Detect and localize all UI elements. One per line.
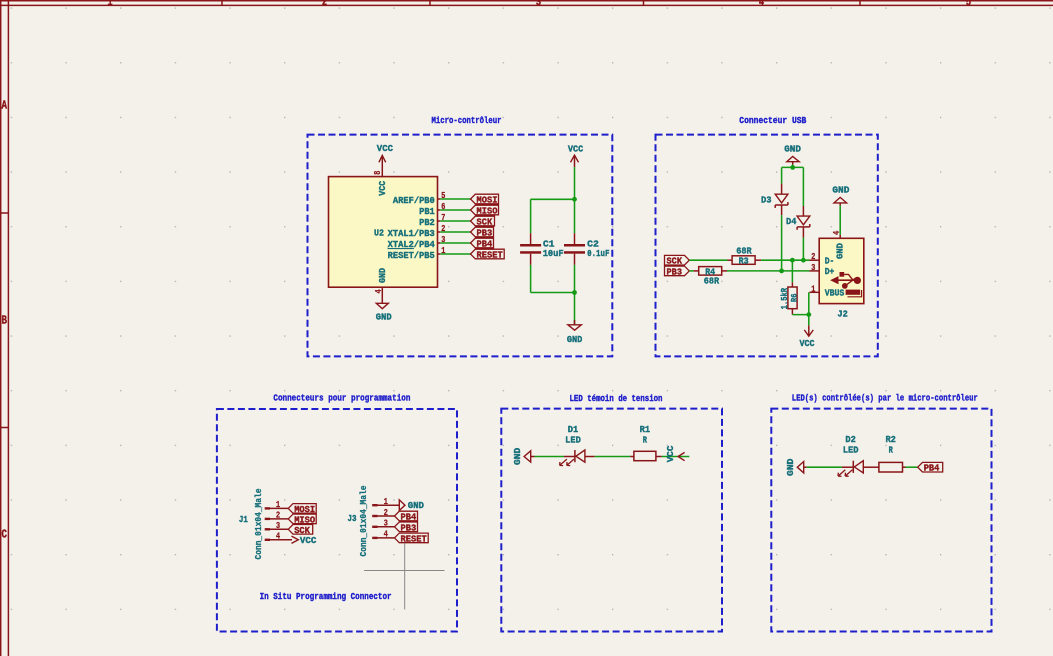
svg-text:Conn_01x04_Male: Conn_01x04_Male <box>254 489 264 560</box>
svg-text:GND: GND <box>377 268 388 283</box>
svg-text:3: 3 <box>276 521 280 531</box>
svg-text:VCC: VCC <box>568 143 584 154</box>
svg-text:LED: LED <box>565 434 581 445</box>
svg-text:RESET/PB5: RESET/PB5 <box>388 250 436 261</box>
svg-text:D+: D+ <box>825 266 835 277</box>
svg-text:PB4: PB4 <box>924 463 940 474</box>
svg-text:Connecteurs pour programmation: Connecteurs pour programmation <box>273 392 410 403</box>
svg-text:MOSI: MOSI <box>294 504 315 515</box>
svg-text:R6: R6 <box>790 294 800 303</box>
svg-text:GND: GND <box>784 143 801 154</box>
svg-text:1: 1 <box>441 246 446 256</box>
svg-text:2: 2 <box>276 511 280 521</box>
svg-text:1: 1 <box>107 0 113 9</box>
svg-text:GND: GND <box>512 447 523 465</box>
svg-text:D3: D3 <box>761 194 772 205</box>
svg-text:6: 6 <box>441 202 445 212</box>
svg-text:2: 2 <box>441 224 445 234</box>
svg-text:GND: GND <box>785 458 796 476</box>
svg-text:GND: GND <box>408 500 425 511</box>
svg-text:1.5kR: 1.5kR <box>779 288 790 310</box>
svg-text:R1: R1 <box>640 424 651 435</box>
svg-text:10uF: 10uF <box>543 248 564 259</box>
svg-text:A: A <box>2 99 8 112</box>
svg-text:J3: J3 <box>348 513 357 524</box>
svg-text:VCC: VCC <box>665 445 676 462</box>
svg-text:R: R <box>889 444 894 455</box>
svg-text:LED(s) contrôlée(s) par le mic: LED(s) contrôlée(s) par le micro-contrôl… <box>792 393 978 404</box>
svg-text:VCC: VCC <box>800 338 815 349</box>
svg-text:J2: J2 <box>837 309 848 320</box>
svg-text:1: 1 <box>811 284 816 294</box>
svg-text:D-: D- <box>825 256 835 267</box>
svg-text:68R: 68R <box>704 276 720 287</box>
svg-text:C: C <box>2 528 8 541</box>
svg-text:VBUS: VBUS <box>825 288 845 299</box>
svg-text:Micro-contrôleur: Micro-contrôleur <box>432 115 502 126</box>
svg-text:Connecteur USB: Connecteur USB <box>739 115 806 126</box>
svg-text:XTAL1/PB3: XTAL1/PB3 <box>388 228 436 239</box>
svg-text:8: 8 <box>373 171 383 175</box>
svg-text:5: 5 <box>966 0 972 9</box>
svg-text:LED: LED <box>843 444 859 455</box>
svg-text:2: 2 <box>811 252 815 262</box>
svg-text:RESET: RESET <box>401 533 428 544</box>
svg-text:B: B <box>2 315 8 328</box>
svg-text:LED témoin de tension: LED témoin de tension <box>570 393 663 404</box>
svg-text:AREF/PB0: AREF/PB0 <box>393 195 435 206</box>
svg-text:PB3: PB3 <box>401 522 417 533</box>
svg-text:4: 4 <box>374 289 384 294</box>
svg-text:1: 1 <box>276 500 281 510</box>
svg-text:GND: GND <box>567 334 583 345</box>
svg-text:3: 3 <box>811 263 815 273</box>
svg-text:In Situ Programming Connector: In Situ Programming Connector <box>260 591 392 602</box>
svg-text:SCK: SCK <box>477 217 493 228</box>
svg-text:PB4: PB4 <box>477 239 493 250</box>
svg-text:VCC: VCC <box>377 180 388 195</box>
svg-text:0.1uF: 0.1uF <box>587 248 610 259</box>
svg-text:VCC: VCC <box>377 143 394 154</box>
svg-text:MISO: MISO <box>294 514 315 525</box>
svg-text:PB2: PB2 <box>419 217 435 228</box>
svg-text:D4: D4 <box>786 216 797 227</box>
svg-text:R3: R3 <box>739 255 749 266</box>
svg-text:PB3: PB3 <box>667 266 683 277</box>
svg-text:R: R <box>643 435 648 446</box>
svg-text:SCK: SCK <box>667 256 683 267</box>
svg-text:MOSI: MOSI <box>477 195 498 206</box>
svg-text:U2: U2 <box>374 227 384 238</box>
svg-text:GND: GND <box>834 243 845 259</box>
svg-text:7: 7 <box>441 213 445 223</box>
svg-text:2: 2 <box>322 0 327 9</box>
svg-text:MISO: MISO <box>477 206 498 217</box>
svg-text:4: 4 <box>832 230 842 235</box>
svg-text:D2: D2 <box>845 434 856 445</box>
svg-text:VCC: VCC <box>300 535 317 546</box>
svg-text:PB4: PB4 <box>401 512 417 523</box>
svg-text:R2: R2 <box>885 434 896 445</box>
svg-text:PB1: PB1 <box>419 206 435 217</box>
svg-text:GND: GND <box>376 311 392 322</box>
svg-text:4: 4 <box>759 0 765 9</box>
svg-text:RESET: RESET <box>477 250 504 261</box>
svg-text:PB3: PB3 <box>477 228 493 239</box>
svg-text:5: 5 <box>441 191 445 201</box>
svg-text:J1: J1 <box>239 514 248 525</box>
svg-text:3: 3 <box>441 235 445 245</box>
svg-text:3: 3 <box>536 0 542 9</box>
svg-text:Conn_01x04_Male: Conn_01x04_Male <box>359 486 369 557</box>
svg-text:GND: GND <box>832 184 849 195</box>
